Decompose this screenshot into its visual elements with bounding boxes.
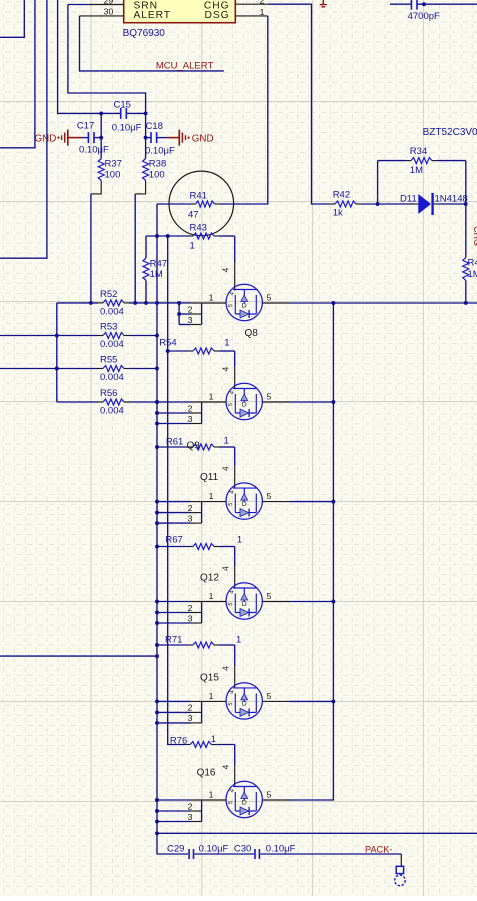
svg-text:3: 3: [188, 613, 193, 623]
svg-text:5: 5: [267, 790, 272, 800]
pin 1 (gate): [191, 401, 226, 403]
junction: [155, 721, 159, 725]
pin 3 stub: [157, 414, 202, 424]
junction: [155, 611, 159, 615]
wire: C15 row: [101, 112, 120, 114]
wire: R41 left down to R43 row: [156, 204, 158, 236]
svg-text:1k: 1k: [333, 208, 343, 219]
svg-text:MCU_ALERT: MCU_ALERT: [156, 60, 214, 71]
pin 1 (gate): [191, 799, 226, 801]
junction: [177, 312, 181, 316]
wire: Q11 gate row: [157, 501, 191, 503]
svg-text:Q11: Q11: [200, 472, 219, 483]
wire: left edge wire at y656: [0, 655, 157, 657]
wire: ladder rails: [201, 303, 203, 325]
svg-text:R47: R47: [150, 259, 167, 270]
svg-text:0.004: 0.004: [100, 372, 124, 383]
wire: R61 to FET gate pin4: [234, 447, 236, 466]
pin 3 stub: [157, 812, 202, 822]
svg-text:3: 3: [188, 812, 193, 822]
svg-text:2: 2: [188, 304, 193, 314]
svg-text:4: 4: [221, 466, 231, 471]
pin 5 (source): [262, 700, 290, 702]
junction: [155, 445, 159, 449]
transistor Q16 MOSFET symbol: [226, 781, 262, 817]
resistor R76 1: [170, 734, 235, 748]
svg-text:3: 3: [188, 315, 193, 325]
wire: net MCU_ALERT from pin30: [80, 16, 224, 71]
junction: [331, 301, 335, 305]
svg-text:5: 5: [267, 392, 272, 402]
svg-text:D: D: [242, 799, 247, 806]
svg-text:GND: GND: [192, 134, 214, 145]
svg-text:D: D: [242, 601, 247, 608]
svg-text:2: 2: [188, 801, 193, 811]
svg-text:1: 1: [224, 436, 229, 447]
junction: [99, 111, 103, 115]
pin 2 stub: [179, 304, 202, 314]
pin 1 (gate): [191, 501, 226, 503]
svg-text:BZT52C3V0S5: BZT52C3V0S5: [423, 127, 477, 138]
svg-text:R52: R52: [100, 289, 117, 300]
pin 5 (source): [262, 501, 290, 503]
pin 29 (SRN): [90, 0, 124, 6]
resistor R37 100: [91, 138, 122, 194]
junction: [155, 643, 159, 647]
junction: [155, 600, 159, 604]
wire: SRN vertical right: [145, 113, 147, 137]
capacitor C29 0.10uF: [167, 844, 229, 860]
junction: [155, 234, 159, 238]
wire: left sense bus: [56, 303, 58, 402]
wire: 4700pF net: [390, 3, 412, 5]
pin 5 (source): [262, 401, 290, 403]
wire: right bus (CHG drive): [465, 161, 467, 258]
wire: ladder rails: [201, 602, 203, 624]
junction: [155, 521, 159, 525]
wire: pin29 blue segment: [68, 4, 90, 6]
svg-text:PACK-: PACK-: [365, 845, 392, 855]
wire: Q15 gate row: [157, 700, 191, 702]
transistor Q12 MOSFET symbol: [226, 583, 262, 619]
wire: Q16 gate row: [157, 799, 191, 801]
capacitor C30 0.10uF: [234, 844, 296, 860]
junction: [155, 621, 159, 625]
junction: [144, 111, 148, 115]
capacitor C18 0.10uF: [145, 121, 175, 157]
svg-text:R61: R61: [166, 437, 183, 448]
junction: [89, 301, 93, 305]
svg-text:3: 3: [188, 713, 193, 723]
junction: [133, 301, 137, 305]
pin 3 stub: [179, 315, 202, 325]
junction: [155, 809, 159, 813]
svg-text:29: 29: [104, 0, 114, 6]
svg-text:1: 1: [209, 392, 214, 402]
svg-text:Q16: Q16: [197, 767, 216, 778]
svg-text:R56: R56: [100, 388, 117, 399]
power symbol (clipped at top edge): [320, 0, 327, 7]
wire: ladder rails: [201, 701, 203, 723]
svg-text:4700pF: 4700pF: [408, 11, 440, 22]
junction: [99, 136, 103, 140]
junction: [155, 831, 159, 835]
junction: [155, 654, 159, 658]
svg-text:1: 1: [224, 338, 229, 349]
svg-text:R43: R43: [190, 223, 207, 234]
junction: [166, 234, 170, 238]
svg-text:1: 1: [209, 691, 214, 701]
wire: vertical to left edge at y148: [0, 0, 35, 148]
resistor R56 0.004: [57, 388, 191, 417]
resistor R38 100: [135, 138, 166, 194]
junction: [331, 400, 335, 404]
svg-text:0.10μF: 0.10μF: [199, 844, 229, 855]
svg-text:1M: 1M: [468, 269, 477, 280]
svg-text:R54: R54: [159, 338, 176, 349]
pin 2 stub: [157, 503, 202, 513]
wire: up to R34: [377, 161, 379, 204]
svg-text:D: D: [242, 302, 247, 309]
svg-text:0.10μF: 0.10μF: [266, 844, 296, 855]
capacitor C?: 4700pF: [408, 0, 440, 22]
svg-text:1: 1: [236, 635, 241, 646]
svg-text:R38: R38: [149, 159, 166, 170]
capacitor C17 0.10uF: [77, 121, 109, 156]
pin 2 stub: [157, 603, 202, 613]
svg-text:R76: R76: [170, 736, 187, 747]
junction: [331, 500, 335, 504]
svg-text:1: 1: [237, 535, 242, 546]
svg-text:R55: R55: [100, 355, 117, 366]
wire: Q12 gate row: [157, 601, 191, 603]
svg-text:5: 5: [267, 691, 272, 701]
junction: [155, 301, 159, 305]
svg-text:R71: R71: [165, 635, 182, 646]
pin 1 (gate): [191, 302, 226, 304]
svg-text:47: 47: [188, 210, 199, 221]
svg-text:4: 4: [221, 765, 231, 770]
svg-text:3: 3: [188, 414, 193, 424]
junction: [155, 334, 159, 338]
svg-text:R67: R67: [165, 535, 182, 546]
ground GND (left of C17): [35, 130, 81, 146]
junction: [144, 301, 148, 305]
wire: R38 to R52 row: [134, 194, 136, 303]
junction: [155, 820, 159, 824]
wire: ladder rails: [201, 402, 203, 424]
wire: Q8 source row to right edge: [290, 302, 477, 304]
junction: [155, 422, 159, 426]
svg-text:R41: R41: [190, 191, 207, 202]
junction: [376, 202, 380, 206]
resistor R44 1M (clipped at edge): [463, 258, 477, 281]
resistor R34 1M: [378, 146, 466, 176]
resistor R55 0.004: [0, 355, 157, 384]
svg-text:2: 2: [260, 0, 265, 5]
resistor R43 1: [146, 223, 235, 252]
wire: source bus (x333): [289, 303, 333, 800]
junction: [155, 545, 159, 549]
svg-text:4: 4: [221, 566, 231, 571]
svg-text:5: 5: [267, 293, 272, 303]
svg-text:0.10μF: 0.10μF: [79, 145, 109, 156]
junction: [155, 699, 159, 703]
wire: R43 to Q8 gate pin4: [234, 236, 236, 262]
junction: [55, 367, 59, 371]
wire: ladder rails: [201, 502, 203, 523]
pin: PACK- connector stem: [400, 854, 402, 866]
svg-text:D: D: [242, 701, 247, 708]
pin 30 (ALERT): [80, 7, 124, 17]
svg-text:Q15: Q15: [200, 673, 219, 684]
wire: bus A down to row B: [157, 833, 188, 854]
wire: R71 to FET gate pin4: [234, 645, 236, 666]
wire: vertical to left edge at y258: [0, 0, 47, 258]
pin 1 (gate): [191, 700, 226, 702]
svg-text:4: 4: [221, 666, 231, 671]
svg-text:R37: R37: [105, 159, 122, 170]
svg-text:2: 2: [188, 603, 193, 613]
resistor R47 1M: [143, 236, 167, 303]
pin 1 (DSG out): [235, 7, 267, 17]
junction: [177, 301, 181, 305]
junction: [155, 710, 159, 714]
junction: [155, 511, 159, 515]
svg-text:1: 1: [209, 790, 214, 800]
svg-text:1: 1: [209, 293, 214, 303]
wire: R54 to FET gate pin4: [234, 351, 236, 367]
junction: Q16 gate at bus: [155, 798, 159, 802]
svg-text:5: 5: [267, 591, 272, 601]
svg-text:1: 1: [211, 734, 216, 745]
resistor R52 0.004: [57, 289, 179, 318]
junction: [155, 400, 159, 404]
wire: row B to PACK- port: [260, 853, 401, 855]
svg-text:R34: R34: [410, 146, 427, 157]
pin 2 stub: [157, 801, 202, 811]
junction: [155, 411, 159, 415]
svg-text:0.10μF: 0.10μF: [112, 123, 142, 134]
svg-text:100: 100: [105, 170, 121, 181]
svg-text:DSG: DSG: [204, 10, 229, 21]
wire: R37 to R52 row: [90, 194, 92, 303]
pin 1 (gate): [191, 601, 226, 603]
junction: [464, 301, 468, 305]
pin 5 (source): [262, 799, 290, 801]
wire: R67 to FET gate pin4: [234, 547, 236, 567]
wire: SRP vertical left: [100, 113, 102, 137]
pin 5 (source): [262, 601, 290, 603]
junction: [155, 400, 159, 404]
svg-text:C15: C15: [114, 100, 131, 111]
svg-text:D11: D11: [400, 194, 417, 205]
svg-text:D: D: [242, 401, 247, 408]
wire: vertical feeding C15 row: [58, 0, 102, 113]
op-amp U? : IC BQ76930 body: [124, 0, 236, 23]
junction: [144, 136, 148, 140]
svg-text:1M: 1M: [150, 269, 163, 280]
svg-text:R53: R53: [100, 322, 117, 333]
junction: [55, 334, 59, 338]
svg-text:3: 3: [188, 513, 193, 523]
wire: bottom row A (full width): [157, 832, 477, 834]
ground GND (right of C18): [168, 130, 214, 146]
junction: [422, 2, 426, 6]
wire: pin29 net down to C18 junction: [68, 5, 146, 114]
svg-text:C30: C30: [234, 844, 251, 855]
connector PACK- port symbol: [395, 866, 406, 885]
junction: [464, 202, 468, 206]
junction: [155, 367, 159, 371]
diode D11 1N4148: [400, 193, 468, 215]
resistor R42 1k: [331, 190, 378, 219]
wire: D11 anode: [378, 203, 412, 205]
svg-text:0.004: 0.004: [100, 339, 124, 350]
svg-text:R4: R4: [468, 258, 477, 269]
svg-text:30: 30: [104, 7, 114, 17]
svg-text:0.004: 0.004: [100, 307, 124, 318]
svg-text:Q9: Q9: [187, 441, 201, 452]
pin 5 (source): [262, 302, 290, 304]
transistor Q15 MOSFET symbol: [226, 683, 262, 719]
pin 2 stub: [157, 403, 202, 413]
junction: [331, 699, 335, 703]
svg-text:1: 1: [209, 491, 214, 501]
wire: pin1 net to R41: [219, 16, 268, 204]
wire: ladder rails: [201, 800, 203, 822]
pin 2 (CHG out): [235, 0, 267, 5]
resistor R53 0.004: [0, 322, 157, 351]
svg-text:C17: C17: [77, 121, 94, 132]
wire: R76 to Q16 gate pin4: [234, 745, 236, 765]
svg-text:2: 2: [188, 703, 193, 713]
junction: [155, 500, 159, 504]
wire: Q8 gate row from R52: [179, 302, 191, 304]
junction: [166, 349, 170, 353]
svg-text:100: 100: [149, 170, 165, 181]
junction: [331, 600, 335, 604]
svg-text:5: 5: [267, 491, 272, 501]
svg-text:R42: R42: [333, 190, 350, 201]
wire: row B mid: [194, 853, 254, 855]
svg-text:BQ76930: BQ76930: [123, 28, 166, 39]
svg-text:GND: GND: [35, 134, 57, 145]
wire: far-left vertical to left edge at y37: [0, 0, 24, 37]
node: directive circle around R41: [169, 171, 234, 236]
svg-text:CHG: CHG: [472, 226, 477, 246]
svg-text:1: 1: [190, 241, 195, 252]
transistor Q? MOSFET symbol: [226, 383, 262, 419]
svg-text:1N4148: 1N4148: [435, 194, 468, 205]
svg-text:Q12: Q12: [200, 573, 219, 584]
pin 2 stub: [157, 703, 202, 713]
wire: gate bus B (x168) down to R76: [168, 236, 186, 745]
svg-text:1: 1: [209, 591, 214, 601]
svg-text:2: 2: [188, 403, 193, 413]
pin 3 stub: [157, 613, 202, 623]
svg-text:0.004: 0.004: [100, 406, 124, 417]
resistor R41 47: [157, 191, 219, 221]
resistor R54 1: [159, 338, 235, 355]
svg-text:2: 2: [188, 503, 193, 513]
resistor R67 1: [157, 535, 242, 550]
svg-text:D: D: [242, 501, 247, 508]
transistor Q8 MOSFET symbol: [226, 284, 262, 320]
resistor R71 1: [157, 635, 241, 649]
svg-text:ALERT: ALERT: [134, 10, 172, 21]
resistor R61 1: [157, 436, 235, 451]
wire: Q11 source to bus: [290, 501, 333, 503]
capacitor C15 0.10uF: [112, 100, 142, 134]
wire: gate bus A (x157): [156, 236, 158, 833]
svg-text:Q8: Q8: [245, 328, 259, 339]
svg-text:0.10μF: 0.10μF: [145, 146, 175, 157]
wire: pin2 net to R42: [268, 4, 331, 204]
junction: [155, 798, 159, 802]
wire: Q9 source to bus: [290, 401, 333, 403]
svg-text:4: 4: [221, 367, 231, 372]
svg-text:4: 4: [221, 268, 231, 273]
svg-text:1M: 1M: [410, 165, 423, 176]
svg-text:C29: C29: [167, 844, 184, 855]
pin 3 stub: [157, 513, 202, 523]
wire: Q15 source to bus: [290, 700, 333, 702]
transistor Q11 MOSFET symbol: [226, 483, 262, 519]
pin 3 stub: [157, 713, 202, 723]
svg-text:C18: C18: [146, 121, 163, 132]
svg-text:1: 1: [260, 7, 265, 17]
wire: Q12 source to bus: [290, 601, 333, 603]
